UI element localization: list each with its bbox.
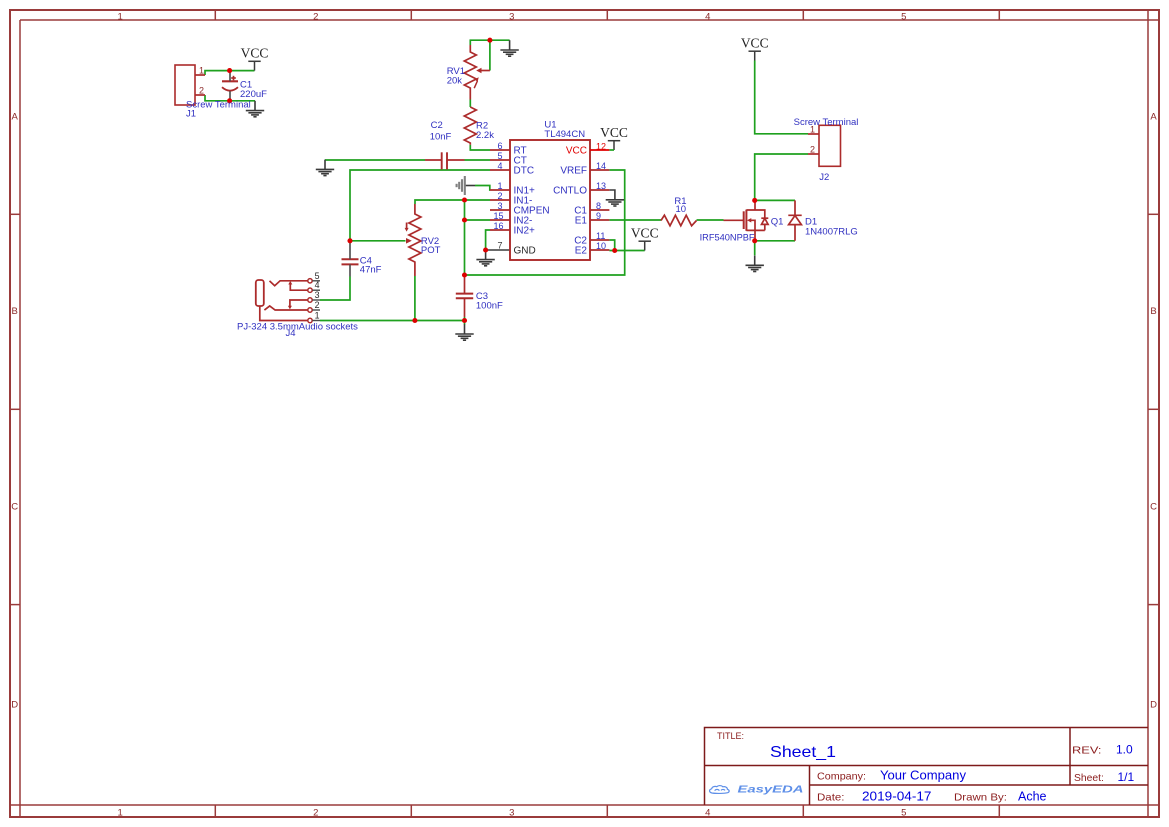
- svg-text:2: 2: [313, 11, 318, 22]
- svg-text:IRF540NPBF: IRF540NPBF: [700, 232, 755, 243]
- svg-text:9: 9: [596, 211, 601, 221]
- svg-text:J1: J1: [186, 109, 196, 120]
- svg-text:C: C: [1150, 501, 1157, 512]
- svg-text:Your Company: Your Company: [880, 769, 967, 783]
- svg-text:1/1: 1/1: [1118, 770, 1135, 784]
- svg-text:6: 6: [497, 141, 502, 151]
- svg-text:Date:: Date:: [817, 792, 845, 804]
- svg-text:2: 2: [810, 144, 815, 154]
- svg-text:1: 1: [315, 311, 320, 321]
- svg-text:220uF: 220uF: [240, 89, 267, 100]
- svg-text:3: 3: [497, 201, 502, 211]
- svg-text:2: 2: [313, 808, 318, 819]
- svg-text:100nF: 100nF: [476, 301, 503, 312]
- svg-text:16: 16: [493, 221, 503, 231]
- svg-text:3: 3: [315, 290, 320, 300]
- svg-text:Screw Terminal: Screw Terminal: [794, 117, 859, 128]
- svg-text:TL494CN: TL494CN: [544, 129, 585, 140]
- svg-text:11: 11: [596, 231, 605, 241]
- svg-text:D: D: [11, 699, 18, 710]
- svg-text:2: 2: [497, 191, 502, 201]
- svg-text:B: B: [12, 306, 18, 317]
- svg-text:D: D: [1150, 699, 1157, 710]
- svg-text:E1: E1: [575, 216, 588, 227]
- svg-text:DTC: DTC: [514, 166, 535, 177]
- svg-text:5: 5: [497, 151, 502, 161]
- svg-text:12: 12: [596, 141, 606, 151]
- svg-text:VCC: VCC: [600, 125, 628, 140]
- svg-text:VCC: VCC: [741, 36, 769, 51]
- svg-text:VREF: VREF: [560, 166, 587, 177]
- svg-text:5: 5: [901, 11, 906, 22]
- svg-text:4: 4: [315, 280, 320, 290]
- svg-text:3: 3: [509, 11, 514, 22]
- svg-text:POT: POT: [421, 245, 441, 256]
- svg-text:4: 4: [497, 161, 502, 171]
- svg-text:1: 1: [118, 808, 123, 819]
- svg-text:1: 1: [497, 181, 502, 191]
- svg-text:Sheet_1: Sheet_1: [770, 744, 836, 761]
- svg-text:C: C: [11, 501, 18, 512]
- svg-text:Ache: Ache: [1018, 790, 1047, 804]
- svg-text:VCC: VCC: [241, 46, 269, 61]
- svg-text:1: 1: [199, 65, 204, 75]
- svg-text:TITLE:: TITLE:: [717, 731, 744, 741]
- svg-text:10nF: 10nF: [430, 132, 452, 143]
- svg-text:PJ-324 3.5mmAudio sockets: PJ-324 3.5mmAudio sockets: [237, 322, 358, 333]
- svg-text:Company:: Company:: [817, 771, 866, 783]
- svg-text:1N4007RLG: 1N4007RLG: [805, 226, 858, 237]
- svg-text:J2: J2: [819, 172, 829, 183]
- svg-text:GND: GND: [514, 246, 536, 257]
- svg-text:J4: J4: [286, 328, 296, 339]
- svg-text:14: 14: [596, 161, 606, 171]
- svg-text:A: A: [1150, 112, 1157, 123]
- svg-text:2: 2: [199, 85, 204, 95]
- svg-text:2019-04-17: 2019-04-17: [862, 790, 932, 804]
- svg-text:A: A: [12, 112, 19, 123]
- svg-text:1.0: 1.0: [1116, 743, 1133, 757]
- svg-text:IN2+: IN2+: [514, 226, 536, 237]
- svg-text:E2: E2: [575, 246, 588, 257]
- svg-text:Sheet:: Sheet:: [1074, 772, 1104, 784]
- svg-text:Drawn By:: Drawn By:: [954, 792, 1007, 804]
- svg-text:3: 3: [509, 808, 514, 819]
- svg-text:15: 15: [493, 211, 503, 221]
- svg-text:13: 13: [596, 181, 606, 191]
- svg-text:CNTLO: CNTLO: [553, 186, 587, 197]
- svg-text:10: 10: [676, 204, 687, 215]
- svg-text:VCC: VCC: [631, 226, 659, 241]
- svg-text:2: 2: [315, 300, 320, 310]
- svg-text:10: 10: [596, 241, 606, 251]
- svg-text:20k: 20k: [447, 75, 463, 86]
- svg-text:4: 4: [705, 11, 710, 22]
- svg-text:7: 7: [497, 241, 502, 251]
- svg-text:1: 1: [118, 11, 123, 22]
- svg-text:Q1: Q1: [771, 216, 784, 227]
- svg-text:VCC: VCC: [566, 146, 587, 157]
- svg-text:47nF: 47nF: [360, 264, 382, 275]
- svg-text:8: 8: [596, 201, 601, 211]
- svg-text:REV:: REV:: [1072, 745, 1102, 757]
- svg-text:2.2k: 2.2k: [476, 130, 494, 141]
- svg-text:EasyEDA: EasyEDA: [738, 784, 804, 795]
- svg-text:5: 5: [901, 808, 906, 819]
- svg-text:C2: C2: [431, 120, 443, 131]
- svg-text:B: B: [1150, 306, 1156, 317]
- svg-text:4: 4: [705, 808, 710, 819]
